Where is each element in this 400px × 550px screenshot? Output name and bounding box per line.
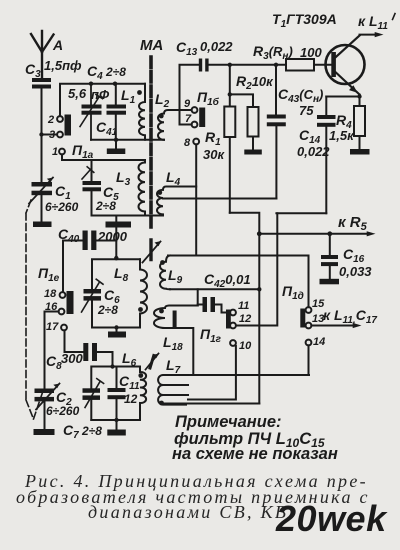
svg-text:Примечание:: Примечание:	[175, 413, 282, 431]
L8 C6 loop box	[92, 259, 140, 327]
svg-text:17: 17	[46, 321, 59, 333]
wire L9 bottom branch down to C42 L18	[197, 289, 199, 305]
svg-text:2÷8: 2÷8	[95, 199, 116, 213]
wire contact 2 to antenna coupling line	[59, 84, 61, 116]
inductor L3	[138, 160, 145, 216]
wire antenna top bus	[60, 83, 145, 85]
inductor L2	[158, 110, 180, 140]
node L8 loop bottom	[114, 325, 118, 329]
inductor L9	[160, 256, 170, 290]
svg-text:7: 7	[185, 113, 192, 125]
L9 polarity dot	[160, 260, 165, 265]
svg-text:МА: МА	[140, 37, 163, 54]
svg-text:10: 10	[239, 340, 252, 352]
svg-text:75: 75	[299, 103, 314, 118]
antenna A	[31, 31, 54, 79]
switch П1д wiper bar	[300, 309, 305, 328]
switch П1а wiper bar	[65, 115, 72, 136]
ferrite rod dashed core МА	[149, 57, 153, 228]
wire П1г 12 to net X vertical	[236, 213, 277, 325]
svg-text:6÷260: 6÷260	[45, 200, 79, 214]
capacitor C42	[198, 297, 230, 313]
capacitor C11	[108, 367, 126, 430]
variable capacitor C2	[35, 384, 60, 430]
svg-text:А: А	[52, 37, 63, 53]
resistor R4	[354, 106, 365, 149]
wire L7 bottom lead	[164, 403, 259, 405]
svg-text:0,033: 0,033	[339, 264, 372, 279]
svg-text:3: 3	[49, 129, 55, 141]
wire bottom bus C4 C41 L1 L2	[91, 139, 164, 141]
svg-text:1: 1	[52, 146, 58, 158]
trimmer capacitor C6	[82, 279, 104, 312]
wire long vertical to L7 bottom	[258, 234, 260, 404]
L4 polarity dot	[157, 190, 162, 195]
svg-text:0,022: 0,022	[200, 39, 233, 54]
svg-text:20wek: 20wek	[275, 498, 388, 539]
L6 L7 tuning arrow with core dash	[146, 354, 159, 370]
wire contact 1 to L3 C5 loop top	[62, 154, 145, 160]
switch П1а contact 3	[57, 132, 63, 138]
inductor L8	[140, 259, 147, 327]
trimmer capacitor C7	[83, 379, 104, 420]
wire contact 17 to C8	[65, 330, 84, 352]
wire emitter to C14	[326, 95, 359, 107]
svg-text:14: 14	[313, 336, 325, 348]
svg-text:12: 12	[124, 392, 138, 406]
node C8 to KB loop	[110, 364, 114, 368]
wire stub to contact 9	[180, 109, 192, 111]
svg-text:1,5пф: 1,5пф	[44, 58, 82, 73]
switch П1д contact 14	[306, 340, 312, 346]
trimmer capacitor C5	[82, 160, 101, 216]
wire contact 16 to C2	[45, 312, 59, 389]
L18 core bar	[173, 311, 177, 328]
svg-text:1,5к: 1,5к	[329, 128, 355, 143]
node C16 top	[327, 231, 332, 236]
resistor R1	[224, 65, 235, 213]
gang dashed link C1 C2	[26, 200, 43, 419]
capacitor C3	[32, 78, 51, 89]
capacitor C43	[267, 65, 286, 199]
svg-text:2: 2	[47, 114, 54, 126]
switch П1г contact 12	[230, 323, 236, 329]
node junction to contact 3	[39, 132, 43, 136]
svg-text:11: 11	[238, 300, 249, 312]
inductor L4	[157, 190, 163, 216]
svg-text:2000: 2000	[97, 229, 128, 244]
L6 polarity dot	[138, 373, 143, 378]
L8 polarity dot	[138, 307, 143, 312]
wire L4 top lead	[163, 187, 196, 190]
wire L7 mid to contact 10	[188, 346, 236, 400]
wire contact 14 to L7 top line	[308, 345, 310, 375]
capacitor C14	[317, 97, 336, 214]
switch П1а contact 2	[57, 116, 63, 122]
ground below L8 loop	[108, 328, 126, 338]
tick mark after к L11	[393, 14, 396, 20]
ground below C16	[320, 279, 340, 285]
capacitor C40	[63, 231, 116, 251]
L1 polarity dot	[137, 90, 142, 95]
switch П1б wiper bar	[199, 108, 205, 128]
switch П1е contact 18	[60, 292, 66, 298]
svg-text:на схеме не показан: на схеме не показан	[172, 445, 338, 463]
capacitor C16	[321, 234, 338, 279]
variable capacitor C1	[29, 178, 53, 222]
ground below R4	[350, 149, 370, 155]
oscillator core dashes with arrow	[143, 240, 162, 263]
wire to switch contact 3	[42, 134, 58, 136]
inductor L1	[139, 84, 145, 140]
L18 polarity dot	[159, 309, 164, 314]
switch П1б contact 9	[192, 107, 198, 113]
wire C40 right to loop junction	[115, 228, 117, 260]
ground below C41	[107, 140, 126, 154]
wire base bus C13 to R3	[209, 64, 286, 66]
ground below R2	[244, 150, 261, 155]
wire emitter net jog	[196, 199, 326, 214]
switch П1д contact 13	[306, 323, 312, 329]
svg-text:6÷260: 6÷260	[46, 404, 80, 418]
svg-text:0,022: 0,022	[297, 144, 330, 159]
switch П1а contact 1	[59, 149, 65, 155]
node C4 top	[89, 82, 93, 86]
switch П1г contact 11	[230, 310, 236, 316]
wire KB loop top	[91, 367, 140, 389]
inductor L7	[158, 375, 188, 405]
switch П1е contact 16	[59, 309, 65, 315]
capacitor C41	[107, 84, 127, 140]
switch П1г wiper bar	[226, 310, 231, 329]
node R1 top	[228, 63, 232, 67]
svg-text:18: 18	[44, 288, 57, 300]
node C41 top	[113, 82, 117, 86]
wire C13 left to switch П1б	[180, 65, 199, 125]
transistor T1	[326, 36, 365, 95]
trimmer capacitor C4	[80, 84, 103, 140]
L2 polarity dot	[159, 114, 164, 119]
svg-text:9: 9	[184, 98, 191, 110]
ground below C11	[107, 430, 126, 436]
wire R1 bottom jog to long vertical	[230, 213, 259, 234]
inductor L6	[140, 367, 146, 421]
ground below C2	[34, 429, 55, 435]
wire к L11 C17 arrow	[311, 323, 361, 328]
L7 polarity dot	[159, 401, 164, 406]
switch П1б contact 7	[192, 122, 198, 128]
node R2 tap	[228, 92, 232, 96]
node C43 top	[274, 63, 278, 67]
switch П1б contact 8	[193, 139, 199, 145]
switch П1д contact 15	[306, 307, 312, 313]
node L9 bottom junction	[257, 287, 261, 291]
svg-text:30к: 30к	[203, 147, 225, 162]
wire C40 left down to contact 18	[62, 241, 64, 293]
wire contact 8 down to L9 top line	[195, 144, 197, 255]
wire L9 top to П1д contact 15	[168, 256, 309, 308]
svg-text:8: 8	[184, 137, 191, 149]
wire R2 jog	[230, 94, 253, 107]
wire stub to contact 7	[180, 124, 192, 126]
inductor L18	[154, 306, 198, 376]
wire net X left extension	[163, 198, 196, 200]
node ground stub	[114, 138, 118, 142]
svg-text:100: 100	[300, 45, 322, 60]
svg-text:диапазонами СВ, КВ: диапазонами СВ, КВ	[88, 502, 288, 522]
ground loop L3	[106, 216, 132, 228]
svg-text:2÷8: 2÷8	[97, 303, 118, 317]
capacitor C8	[83, 343, 112, 367]
svg-text:300: 300	[61, 351, 83, 366]
wire C7 bottom to ground bus	[91, 419, 140, 421]
emitter node	[357, 94, 361, 98]
node к R5 junction	[257, 231, 262, 236]
switch П1г contact 10	[230, 340, 236, 346]
svg-text:5,6: 5,6	[68, 86, 87, 101]
wire L9 bottom to long vertical	[170, 288, 259, 290]
resistor R2	[248, 107, 259, 150]
node L8 loop top	[114, 256, 118, 260]
capacitor C13	[199, 59, 209, 72]
resistor R3	[286, 59, 332, 71]
collector output arrow к L11	[360, 32, 384, 37]
wire L7 top to contact 14 corner	[188, 374, 309, 376]
wire C3 to C1	[41, 89, 43, 183]
ground below C1	[33, 222, 52, 228]
wire loop bottom C5 L3 L4	[92, 215, 164, 217]
switch П1е wiper bar	[67, 291, 74, 314]
wire к R5 arrow	[259, 231, 375, 236]
svg-text:пФ: пФ	[91, 87, 110, 102]
node C11 bottom	[114, 418, 118, 422]
switch П1е contact 17	[61, 325, 67, 331]
svg-text:12: 12	[239, 313, 251, 325]
